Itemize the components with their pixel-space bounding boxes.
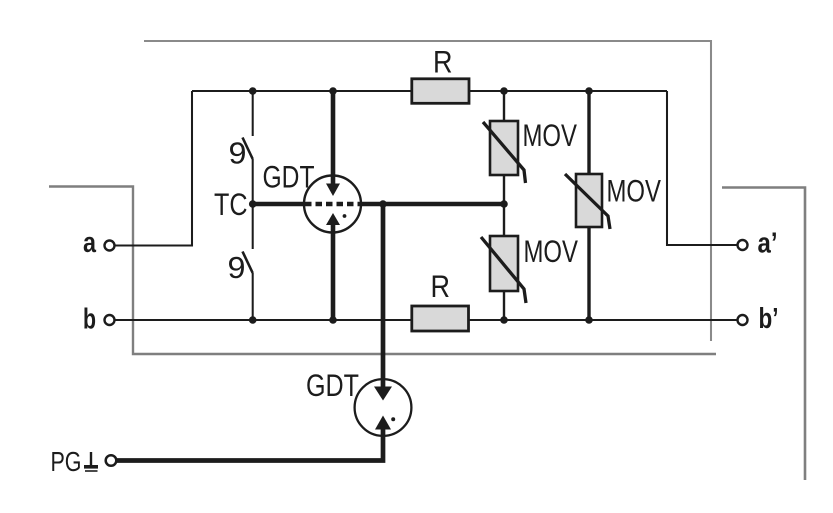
varistor MOV2 label — [524, 233, 579, 269]
resistor R1 label — [433, 44, 453, 80]
terminal b label — [83, 304, 96, 336]
svg-text:9: 9 — [228, 250, 246, 285]
terminal b' label — [759, 303, 779, 335]
svg-text:MOV: MOV — [524, 233, 579, 269]
resistor R2 label — [431, 268, 451, 304]
GDT1 label — [263, 159, 315, 195]
varistor MOV1 label — [523, 117, 578, 153]
wire b rail — [115, 319, 738, 321]
switch S2 blade — [243, 252, 253, 274]
svg-text:PG: PG — [51, 446, 82, 477]
svg-text:a: a — [83, 227, 97, 259]
svg-text:R: R — [431, 268, 451, 304]
outer boundary right (gray) — [722, 188, 805, 481]
switch S2 lower lead — [252, 273, 254, 320]
svg-text:b’: b’ — [759, 303, 779, 335]
terminal b — [105, 315, 115, 325]
junction dots top rail — [249, 87, 593, 95]
varistor MOV2 — [481, 236, 526, 303]
wire center electrode down to GDT2 (thick) — [381, 204, 386, 387]
switch S1 blade — [243, 138, 253, 160]
GDT2 label — [306, 367, 359, 403]
terminal b' — [738, 315, 748, 325]
svg-text:a’: a’ — [758, 228, 778, 260]
enclosure frame left/bottom (gray) — [49, 187, 716, 355]
terminal PG — [106, 455, 117, 466]
wire from terminal a up to top rail — [115, 91, 193, 246]
svg-text:MOV: MOV — [523, 117, 578, 153]
varistor MOV2 leads — [503, 204, 505, 320]
wire GDT2 bottom to PG rail (thick) — [116, 429, 383, 461]
wire TC center-electrode line (thick) — [253, 202, 504, 206]
switch S1 upper lead — [252, 91, 254, 136]
svg-text:MOV: MOV — [607, 173, 662, 209]
terminal a' label — [758, 228, 778, 260]
gas discharge tube GDT2 (two-electrode) — [355, 379, 412, 436]
terminal a' — [738, 240, 748, 250]
resistor R2 — [412, 306, 469, 331]
wire from top rail down to terminal a' — [667, 91, 738, 245]
terminal a — [105, 241, 115, 251]
switch S1 lower lead — [252, 159, 254, 204]
svg-text:9: 9 — [229, 136, 247, 171]
varistor MOV3 leads — [587, 91, 590, 320]
switch S2 upper lead — [252, 204, 254, 249]
terminal PG label — [51, 446, 82, 477]
svg-text:TC: TC — [214, 186, 248, 222]
junction dots b rail — [249, 316, 593, 324]
svg-text:b: b — [83, 304, 96, 336]
junction dots TC line — [249, 200, 508, 208]
svg-text:GDT: GDT — [263, 159, 315, 195]
enclosure frame top/right (gray) — [144, 41, 711, 341]
node TC label — [214, 186, 248, 222]
varistor MOV1 leads — [503, 91, 505, 204]
wire top rail — [192, 90, 667, 92]
resistor R1 — [412, 79, 469, 104]
ground symbol — [84, 452, 98, 471]
switch S2 thermal label ϑ — [228, 250, 246, 285]
varistor MOV3 label — [607, 173, 662, 209]
varistor MOV1 — [483, 121, 526, 183]
varistor MOV3 — [565, 174, 610, 229]
gas discharge tube GDT1 (three-electrode) — [304, 91, 361, 320]
svg-text:GDT: GDT — [306, 367, 359, 403]
switch S1 thermal label ϑ — [229, 136, 247, 171]
svg-text:R: R — [433, 44, 453, 80]
terminal a label — [83, 227, 97, 259]
